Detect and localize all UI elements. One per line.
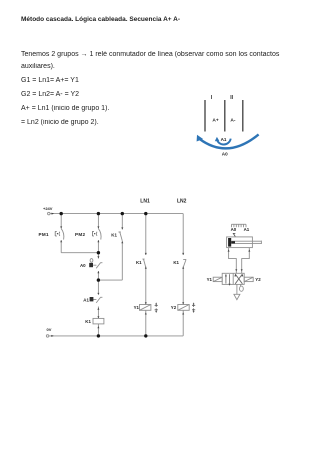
svg-text:LN2: LN2 [177, 199, 187, 205]
svg-text:Y1: Y1 [207, 277, 213, 282]
svg-text:Y2: Y2 [255, 277, 261, 282]
svg-text:LN1: LN1 [140, 199, 150, 205]
svg-text:A1: A1 [244, 227, 250, 232]
svg-text:K1: K1 [136, 260, 142, 265]
svg-text:A0: A0 [80, 263, 86, 268]
svg-text:I: I [211, 95, 213, 101]
svg-text:PM1: PM1 [39, 232, 49, 237]
svg-text:+24V: +24V [43, 206, 53, 211]
svg-text:A0: A0 [231, 227, 237, 232]
svg-text:0V: 0V [47, 327, 52, 332]
svg-text:A+: A+ [212, 118, 218, 124]
svg-text:K1: K1 [85, 319, 91, 324]
svg-text:A1: A1 [221, 137, 227, 142]
svg-text:K1: K1 [111, 233, 117, 238]
svg-text:PM2: PM2 [75, 232, 85, 237]
svg-text:Y1: Y1 [134, 305, 140, 310]
svg-text:A-: A- [230, 118, 235, 124]
svg-text:II: II [230, 95, 233, 101]
svg-text:A0: A0 [222, 152, 228, 157]
svg-text:K1: K1 [173, 260, 179, 265]
svg-text:Y2: Y2 [171, 305, 177, 310]
svg-text:A1: A1 [83, 297, 89, 302]
